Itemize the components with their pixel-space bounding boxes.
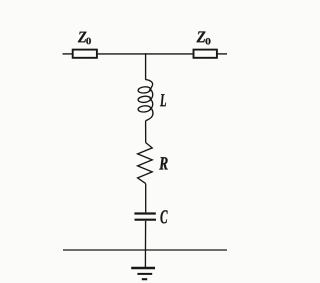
ground bar 2 — [137, 273, 152, 275]
label Z right — [197, 32, 206, 43]
capacitor C top plate — [134, 212, 155, 214]
wire from capacitor down through bottom rail to ground — [144, 221, 146, 267]
label 0 right (subscript) — [205, 38, 210, 44]
inductor loop 3 — [138, 105, 151, 112]
wire top-right stub — [217, 53, 227, 55]
wire top middle (between Z0 blocks, through node) — [98, 53, 193, 55]
ground bar 3 — [142, 278, 147, 280]
wire between resistor and capacitor — [145, 184, 147, 213]
ground bar 1 — [131, 267, 155, 270]
label C — [160, 210, 167, 223]
inductor loop 2 — [138, 96, 151, 103]
label L — [160, 94, 166, 106]
resistor R zigzag — [138, 143, 153, 184]
label 0 left (subscript) — [86, 38, 91, 45]
wire top-left feed — [63, 53, 73, 55]
inductor loop 1 — [138, 86, 151, 93]
bottom rail (return conductor) — [63, 249, 227, 251]
label R — [159, 157, 167, 169]
label Z left — [78, 32, 87, 43]
wire between inductor and resistor — [145, 121, 147, 143]
resistor-box Z0 left (series impedance block) — [73, 50, 97, 58]
node junction + wire down to inductor — [145, 53, 147, 80]
resistor-box Z0 right (series impedance block) — [194, 50, 217, 58]
capacitor C bottom plate — [135, 219, 157, 221]
inductor L coil hooks and humps — [146, 80, 153, 121]
